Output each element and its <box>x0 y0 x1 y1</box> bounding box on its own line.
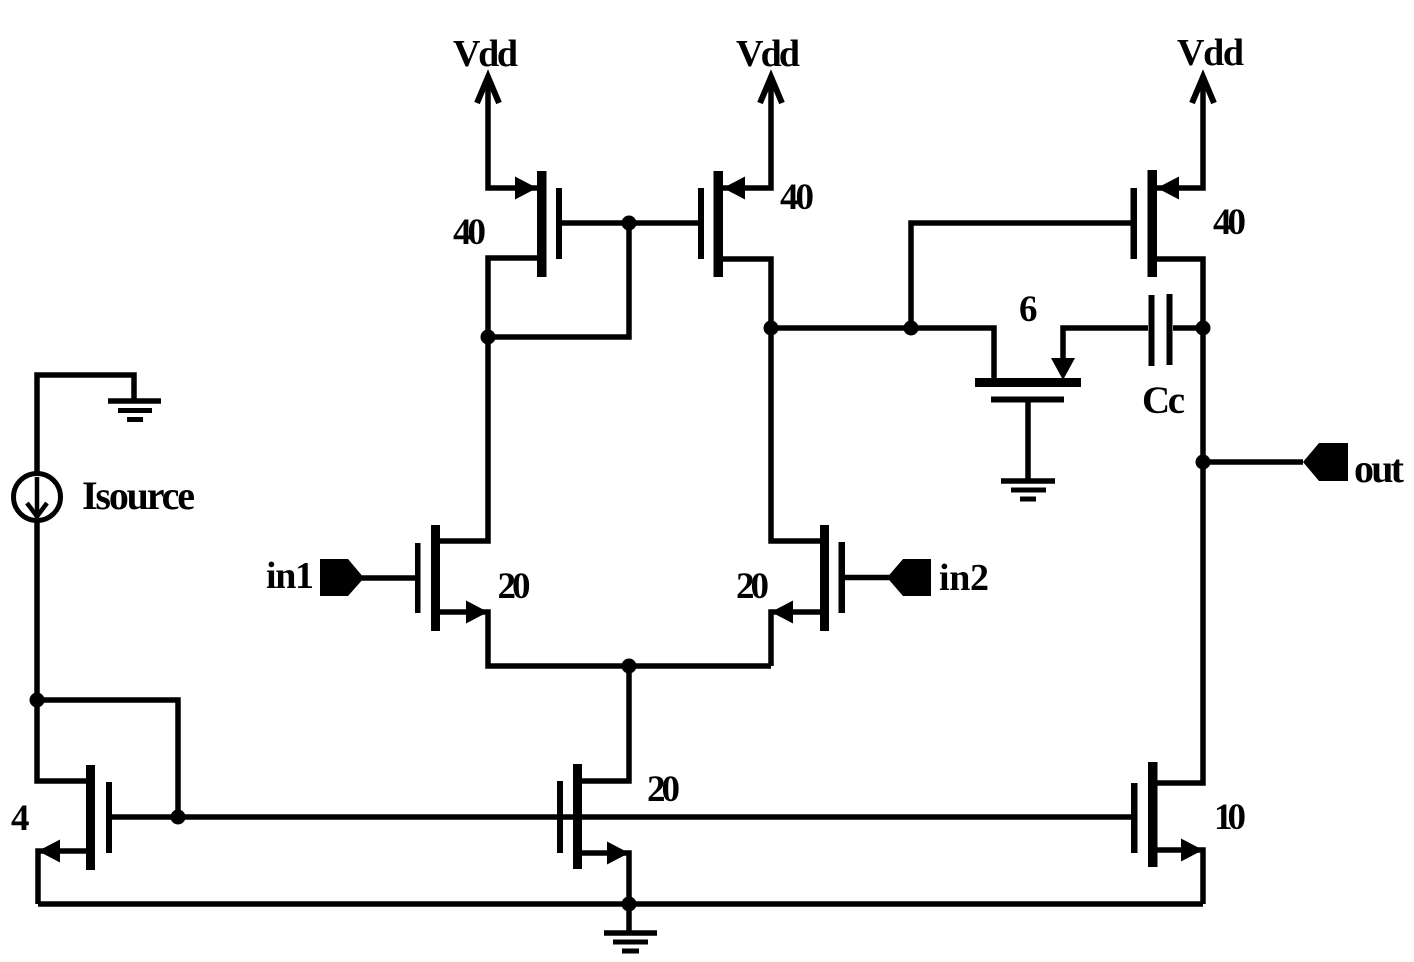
svg-text:20: 20 <box>736 566 769 607</box>
svg-text:40: 40 <box>1213 202 1246 243</box>
svg-text:40: 40 <box>780 177 814 218</box>
svg-text:4: 4 <box>11 798 30 839</box>
svg-text:40: 40 <box>453 212 486 253</box>
svg-text:Isource: Isource <box>82 473 195 518</box>
svg-text:Cc: Cc <box>1142 379 1185 422</box>
svg-text:Vdd: Vdd <box>453 33 518 75</box>
svg-text:20: 20 <box>498 566 531 607</box>
svg-text:6: 6 <box>1019 289 1038 330</box>
svg-text:in2: in2 <box>939 557 989 599</box>
svg-text:Vdd: Vdd <box>736 33 800 75</box>
svg-text:20: 20 <box>647 769 680 810</box>
svg-text:in1: in1 <box>266 555 314 597</box>
svg-text:out: out <box>1354 446 1405 491</box>
svg-text:Vdd: Vdd <box>1177 32 1244 74</box>
svg-text:10: 10 <box>1214 797 1246 838</box>
